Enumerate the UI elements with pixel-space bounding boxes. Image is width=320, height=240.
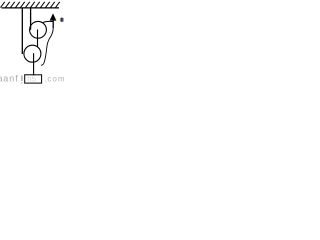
arrow F head: [50, 13, 57, 20]
second rope from ceiling to upper pulley left: [30, 8, 32, 30]
block (load): [25, 75, 42, 83]
rope from pulley up to F arrow shaft: [42, 21, 52, 23]
svg-text:.com: .com: [44, 75, 64, 84]
lower pulley circle: [24, 45, 41, 62]
force rope curve from arrow down around lower pulley: [41, 28, 53, 66]
svg-text:a: a: [0, 73, 3, 83]
ceiling hatching: [1, 2, 60, 8]
link from upper pulley axle to lower pulley: [37, 30, 39, 48]
label F: [60, 18, 61, 22]
ceiling: [2, 7, 60, 9]
svg-text:anf: anf: [3, 73, 19, 83]
svg-text:n5: n5: [27, 75, 36, 84]
watermark exclamation bar: [21, 76, 22, 81]
upper pulley circle: [30, 21, 47, 38]
arrow F shaft: [52, 20, 54, 28]
hanging line from lower pulley to block: [33, 53, 35, 75]
left rope from ceiling to lower pulley: [21, 8, 23, 54]
